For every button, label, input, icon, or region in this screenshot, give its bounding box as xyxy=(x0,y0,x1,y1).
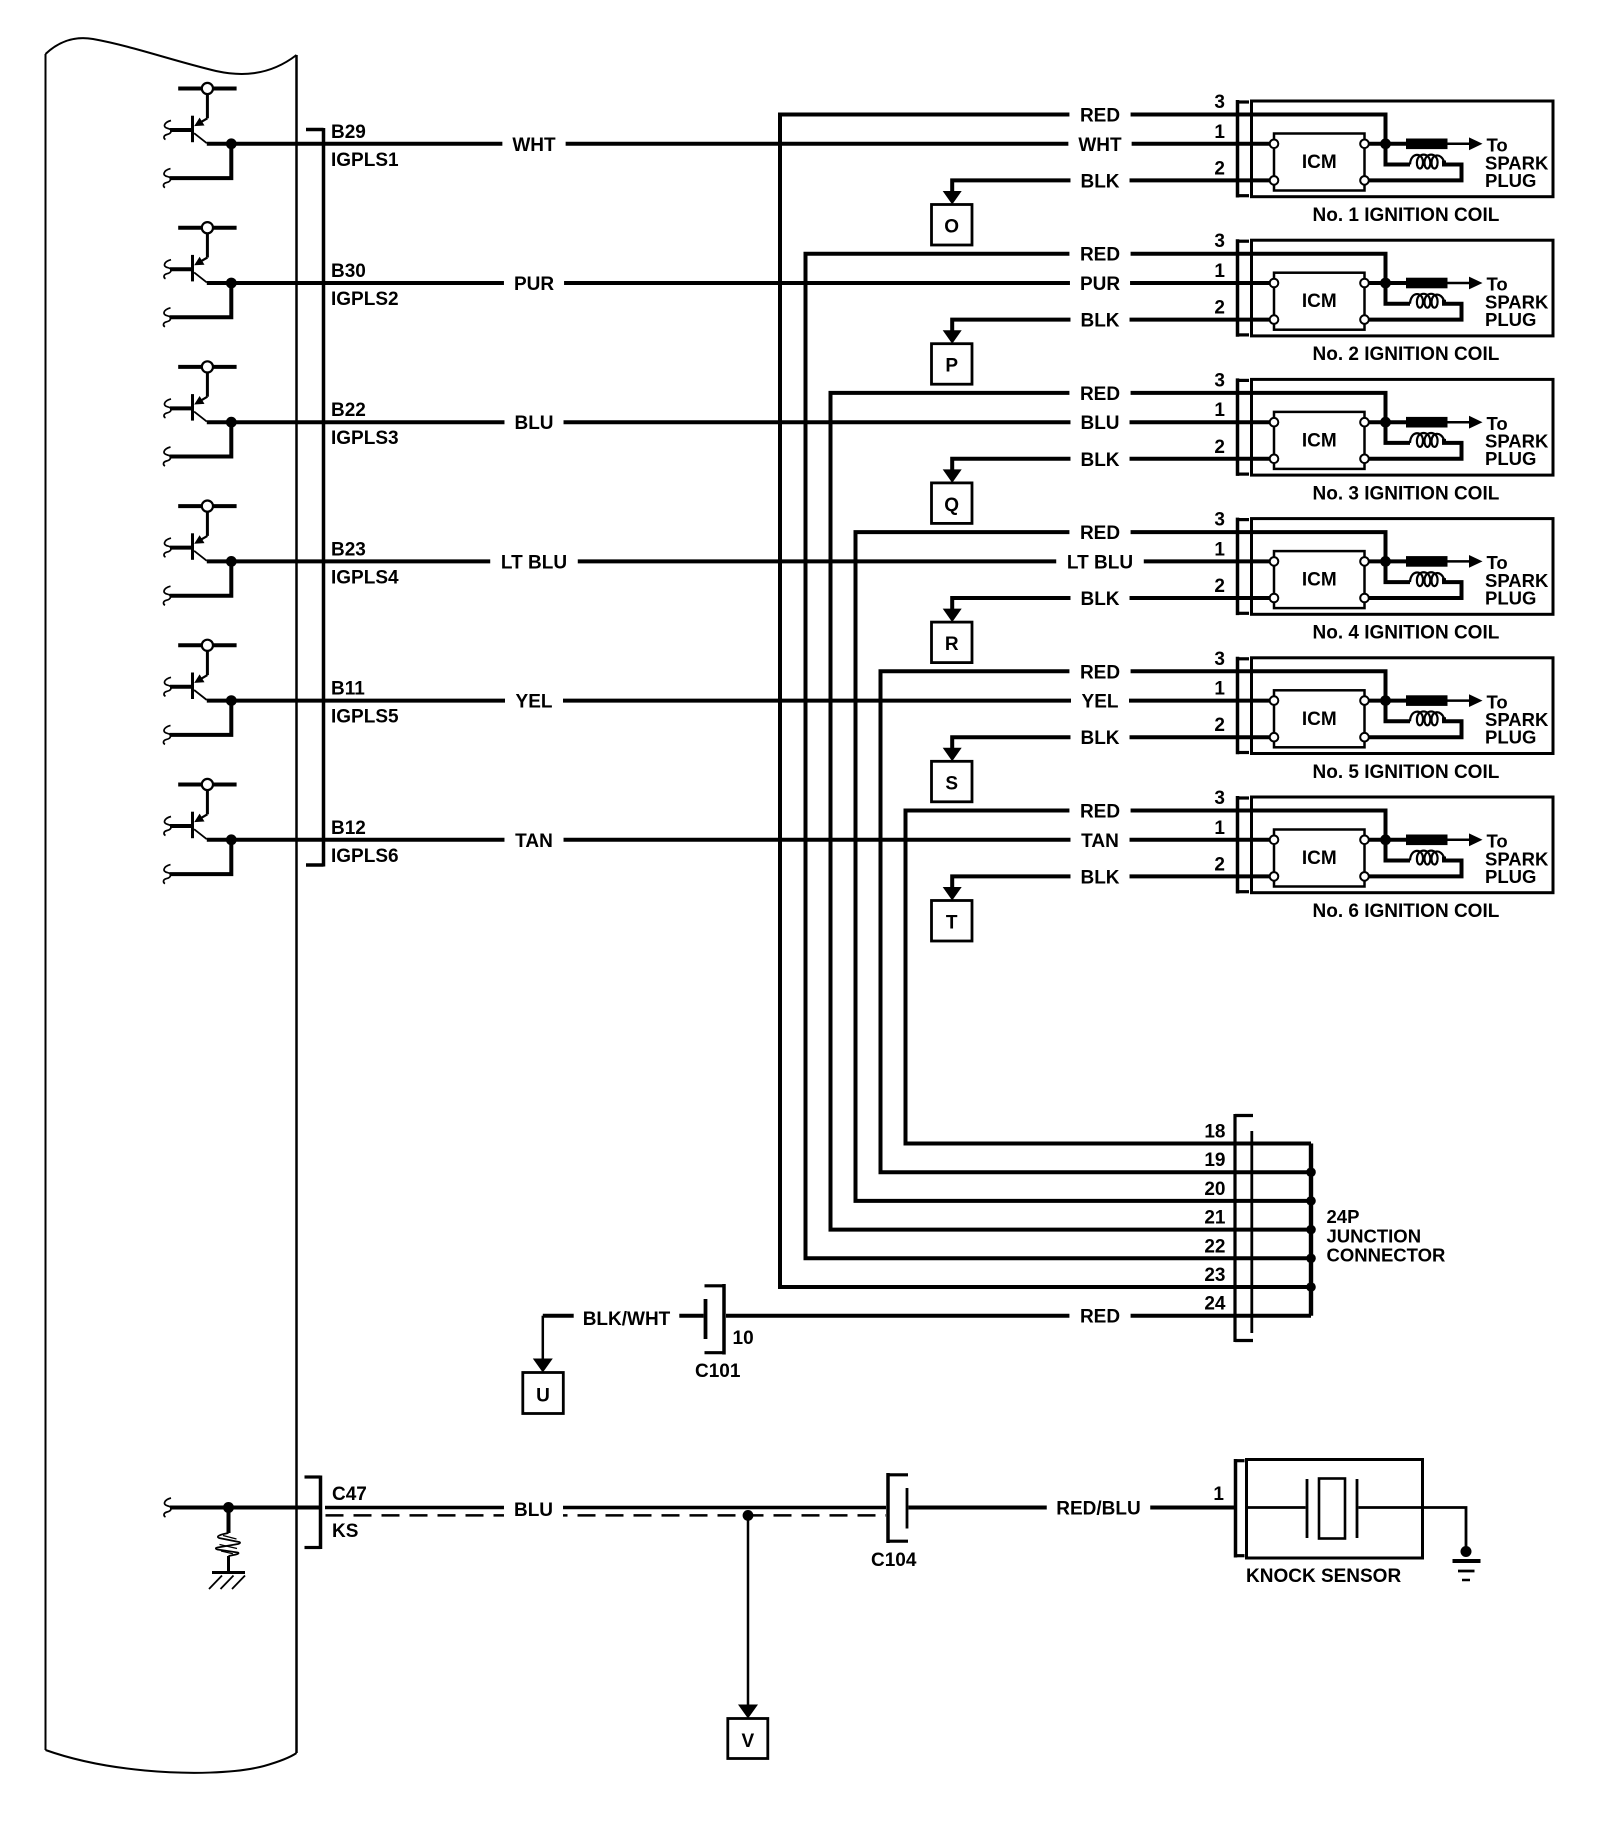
wire BLK/WHT (junction pin 24 ground side) xyxy=(543,1314,704,1318)
pin numbers 3,1,2 of No.3 coil connector xyxy=(1214,370,1225,457)
svg-text:BLK: BLK xyxy=(1080,589,1119,610)
svg-text:No. 1 IGNITION COIL: No. 1 IGNITION COIL xyxy=(1313,205,1500,226)
wire pin 2 lead from ICM (No.1 coil) xyxy=(1238,178,1271,182)
pin numbers 3,1,2 of No.1 coil connector xyxy=(1214,92,1225,179)
svg-text:P: P xyxy=(945,356,958,377)
ECM pin B11 (IGPLS5) xyxy=(331,679,399,728)
ICM pin terminals (No.3 coil) xyxy=(1270,418,1369,463)
node junction dot pin 23 xyxy=(1306,1282,1316,1292)
label PUR (right) on IGPLS2 wire xyxy=(1070,271,1130,295)
wire LT BLU (IGPLS4 signal, ECM to No.4 coil pin 1) xyxy=(207,559,1238,563)
wire RED inside No.1 coil (pin 3 to primary junction) xyxy=(1238,115,1386,144)
svg-text:ICM: ICM xyxy=(1302,152,1337,173)
svg-text:YEL: YEL xyxy=(516,692,553,713)
svg-text:23: 23 xyxy=(1204,1265,1225,1286)
svg-text:V: V xyxy=(741,1731,754,1752)
svg-text:24: 24 xyxy=(1204,1294,1226,1315)
resistor (noise suppressor) to spark plug output (No.1 coil) xyxy=(1386,137,1483,150)
ground connector box R xyxy=(932,622,973,663)
wire shield drain to ground reference V xyxy=(738,1515,758,1718)
wire ICM output to primary junction (No.1 coil) xyxy=(1369,142,1386,146)
svg-text:RED: RED xyxy=(1080,1307,1120,1328)
ECM 31P connector bracket (pins B29-B12) xyxy=(306,128,324,867)
label RED on No.4 coil supply wire xyxy=(1069,520,1130,544)
svg-text:RED: RED xyxy=(1080,106,1120,127)
wire BLK (No.1 coil pin 2 ground, to connector O) xyxy=(943,180,1238,204)
knock sensor KS box xyxy=(1247,1460,1423,1559)
svg-text:RED: RED xyxy=(1080,523,1120,544)
wire ICM output to primary junction (No.4 coil) xyxy=(1369,559,1386,563)
wire ICM output to primary junction (No.5 coil) xyxy=(1369,699,1386,703)
svg-text:ICM: ICM xyxy=(1302,291,1337,312)
svg-text:WHT: WHT xyxy=(512,135,556,156)
svg-text:KNOCK SENSOR: KNOCK SENSOR xyxy=(1246,1566,1401,1587)
node primary junction (No.5 coil) xyxy=(1380,695,1391,706)
svg-text:IGPLS4: IGPLS4 xyxy=(331,567,399,588)
wire pin 2 lead from ICM (No.3 coil) xyxy=(1238,457,1271,461)
label PUR (left) on IGPLS2 wire xyxy=(504,271,564,295)
svg-text:2: 2 xyxy=(1214,437,1225,458)
label BLK on No.5 coil ground wire xyxy=(1070,725,1129,749)
No.5 ignition coil outer box xyxy=(1252,658,1554,754)
wire pin 1 lead into ICM (No.3 coil) xyxy=(1238,420,1271,424)
svg-text:3: 3 xyxy=(1214,510,1225,531)
inductor primary winding (No.2 coil) xyxy=(1386,283,1445,308)
svg-text:20: 20 xyxy=(1204,1179,1225,1200)
svg-text:2: 2 xyxy=(1214,158,1225,179)
chassis ground (KS resistor) xyxy=(209,1556,245,1589)
svg-text:TAN: TAN xyxy=(515,831,553,852)
connector C101 (pin 10) xyxy=(705,1284,725,1355)
svg-text:No. 2 IGNITION COIL: No. 2 IGNITION COIL xyxy=(1313,344,1500,365)
svg-text:18: 18 xyxy=(1204,1122,1225,1143)
node junction on IGPLS3 output xyxy=(226,417,237,428)
svg-text:1: 1 xyxy=(1214,539,1225,560)
ICM pin terminals (No.4 coil) xyxy=(1270,557,1369,602)
svg-text:JUNCTION: JUNCTION xyxy=(1327,1226,1422,1247)
node primary junction (No.2 coil) xyxy=(1380,278,1391,289)
node junction dot pin 19 xyxy=(1306,1167,1316,1177)
node junction dot pin 21 xyxy=(1306,1225,1316,1235)
node primary junction (No.4 coil) xyxy=(1380,556,1391,567)
svg-text:PLUG: PLUG xyxy=(1485,587,1536,608)
resistor (noise suppressor) to spark plug output (No.3 coil) xyxy=(1386,416,1483,429)
svg-text:IGPLS3: IGPLS3 xyxy=(331,428,399,449)
resistor (noise suppressor) to spark plug output (No.4 coil) xyxy=(1386,555,1483,568)
svg-text:Q: Q xyxy=(944,495,959,516)
wire primary winding return to ICM pin (No.3 coil) xyxy=(1369,439,1462,459)
svg-text:10: 10 xyxy=(733,1328,754,1349)
label 24P JUNCTION CONNECTOR xyxy=(1327,1206,1446,1266)
svg-text:T: T xyxy=(946,913,958,934)
svg-text:C104: C104 xyxy=(871,1550,917,1571)
wire RED (No.6 coil pin 3 supply, drop to junction pin 18) xyxy=(906,811,1312,1144)
wire pin 1 lead into ICM (No.5 coil) xyxy=(1238,699,1271,703)
wire RED/BLU (C104 to knock sensor) xyxy=(909,1506,1235,1510)
label WHT (left) on IGPLS1 wire xyxy=(502,132,565,156)
resistor (noise suppressor) to spark plug output (No.5 coil) xyxy=(1386,694,1483,707)
svg-text:No. 4 IGNITION COIL: No. 4 IGNITION COIL xyxy=(1313,623,1500,644)
label RED on No.5 coil supply wire xyxy=(1069,659,1130,683)
wire internal branch below Q4 xyxy=(163,561,231,605)
label YEL (right) on IGPLS5 wire xyxy=(1071,689,1129,713)
wire internal branch below Q1 xyxy=(163,144,231,188)
inductor primary winding (No.6 coil) xyxy=(1386,840,1445,865)
svg-text:3: 3 xyxy=(1214,649,1225,670)
wire pin 2 lead from ICM (No.4 coil) xyxy=(1238,596,1271,600)
No.3 ignition coil outer box xyxy=(1252,379,1554,475)
svg-text:BLK: BLK xyxy=(1080,171,1119,192)
svg-text:IGPLS5: IGPLS5 xyxy=(331,707,399,728)
svg-text:PLUG: PLUG xyxy=(1485,309,1536,330)
label BLU xyxy=(504,1494,563,1527)
wire internal branch below Q5 xyxy=(163,701,231,745)
ECM pin label C47 / KS xyxy=(332,1484,367,1542)
svg-text:RED: RED xyxy=(1080,802,1120,823)
label TAN (left) on IGPLS6 wire xyxy=(504,828,563,852)
label BLK on No.4 coil ground wire xyxy=(1070,586,1129,610)
inductor primary winding (No.4 coil) xyxy=(1386,561,1445,586)
label YEL (left) on IGPLS5 wire xyxy=(505,689,563,713)
ECM pin B30 (IGPLS2) xyxy=(331,261,399,310)
resistor (KS pull-up, hand-drawn) inside ECM xyxy=(216,1508,240,1557)
wire junction bus bar (24P junction connector) xyxy=(1309,1144,1313,1316)
svg-text:1: 1 xyxy=(1214,400,1225,421)
svg-text:LT BLU: LT BLU xyxy=(501,552,567,573)
pin numbers 3,1,2 of No.2 coil connector xyxy=(1214,231,1225,318)
node junction on IGPLS4 output xyxy=(226,556,237,567)
ECM pin C47 (KS) connector bracket xyxy=(305,1476,321,1550)
svg-text:KS: KS xyxy=(332,1521,358,1542)
wire KS inside ECM (knock sensor input) xyxy=(164,1498,321,1517)
ICM (igniter) block inside No.2 coil xyxy=(1274,273,1365,330)
svg-text:B30: B30 xyxy=(331,261,366,282)
wire BLK (No.2 coil pin 2 ground, to connector P) xyxy=(943,320,1238,344)
label WHT (right) on IGPLS1 wire xyxy=(1068,132,1131,156)
node junction on IGPLS5 output xyxy=(226,695,237,706)
node junction on IGPLS1 output xyxy=(226,138,237,149)
svg-text:BLU: BLU xyxy=(514,1500,553,1521)
svg-text:1: 1 xyxy=(1214,679,1225,700)
svg-text:PLUG: PLUG xyxy=(1485,727,1536,748)
wire internal branch below Q6 xyxy=(163,840,231,884)
node primary junction (No.6 coil) xyxy=(1380,834,1391,845)
svg-text:19: 19 xyxy=(1204,1150,1225,1171)
svg-text:B22: B22 xyxy=(331,400,366,421)
wire ICM output to primary junction (No.2 coil) xyxy=(1369,281,1386,285)
ICM (igniter) block inside No.4 coil xyxy=(1274,551,1365,608)
ECM pin B23 (IGPLS4) xyxy=(331,539,399,588)
svg-text:1: 1 xyxy=(1214,818,1225,839)
label BLK on No.2 coil ground wire xyxy=(1070,308,1129,332)
label RED on No.1 coil supply wire xyxy=(1069,103,1130,127)
ICM pin terminals (No.1 coil) xyxy=(1270,140,1369,185)
transistor Q2 (IGPLS2 driver inside ECM) xyxy=(164,222,237,282)
label To SPARK PLUG (No.5 coil) xyxy=(1485,691,1549,747)
No.1 coil 3P connector bracket xyxy=(1238,100,1250,198)
wire ICM output to primary junction (No.6 coil) xyxy=(1369,838,1386,842)
transistor Q1 (IGPLS1 driver inside ECM) xyxy=(164,83,237,143)
wire primary winding return to ICM pin (No.4 coil) xyxy=(1369,578,1462,598)
ground connector box S xyxy=(932,761,973,802)
wire pin 1 lead into ICM (No.1 coil) xyxy=(1238,142,1271,146)
svg-text:3: 3 xyxy=(1214,370,1225,391)
ground connector box O xyxy=(932,205,973,246)
ICM (igniter) block inside No.1 coil xyxy=(1274,134,1365,191)
svg-text:BLK: BLK xyxy=(1080,728,1119,749)
svg-text:PLUG: PLUG xyxy=(1485,866,1536,887)
wire RED (No.5 coil pin 3 supply, drop to junction pin 19) xyxy=(881,671,1312,1172)
svg-text:1: 1 xyxy=(1213,1484,1224,1505)
node junction dot pin 20 xyxy=(1306,1196,1316,1206)
ECM pin B12 (IGPLS6) xyxy=(331,818,399,867)
wire YEL (IGPLS5 signal, ECM to No.5 coil pin 1) xyxy=(207,699,1238,703)
svg-text:U: U xyxy=(536,1386,550,1407)
knock sensor connector bracket xyxy=(1236,1459,1245,1558)
svg-text:2: 2 xyxy=(1214,715,1225,736)
wire primary winding return to ICM pin (No.5 coil) xyxy=(1369,717,1462,737)
label RED on No.3 coil supply wire xyxy=(1069,381,1130,405)
pin numbers 3,1,2 of No.5 coil connector xyxy=(1214,649,1225,736)
svg-text:2: 2 xyxy=(1214,854,1225,875)
inductor primary winding (No.3 coil) xyxy=(1386,422,1445,447)
label BLK on No.1 coil ground wire xyxy=(1070,168,1129,192)
svg-text:WHT: WHT xyxy=(1078,135,1122,156)
ICM (igniter) block inside No.5 coil xyxy=(1274,690,1365,747)
svg-text:22: 22 xyxy=(1204,1236,1225,1257)
svg-text:CONNECTOR: CONNECTOR xyxy=(1327,1245,1446,1266)
svg-text:LT BLU: LT BLU xyxy=(1067,552,1133,573)
wire knock sensor case to ground xyxy=(1423,1508,1467,1549)
ICM (igniter) block inside No.6 coil xyxy=(1274,830,1365,887)
svg-text:IGPLS1: IGPLS1 xyxy=(331,150,399,171)
label BLK/WHT xyxy=(574,1304,680,1331)
wire primary winding return to ICM pin (No.1 coil) xyxy=(1369,161,1462,181)
svg-text:24P: 24P xyxy=(1327,1206,1360,1227)
transistor Q4 (IGPLS4 driver inside ECM) xyxy=(164,501,237,561)
svg-text:ICM: ICM xyxy=(1302,430,1337,451)
svg-text:BLU: BLU xyxy=(514,413,553,434)
svg-text:B12: B12 xyxy=(331,818,366,839)
No.1 ignition coil outer box xyxy=(1252,101,1554,197)
wire RED (No.4 coil pin 3 supply, drop to junction pin 20) xyxy=(856,532,1312,1201)
svg-text:PLUG: PLUG xyxy=(1485,170,1536,191)
resistor (noise suppressor) to spark plug output (No.2 coil) xyxy=(1386,277,1483,290)
transistor Q5 (IGPLS5 driver inside ECM) xyxy=(164,640,237,700)
No.2 ignition coil outer box xyxy=(1252,240,1554,336)
svg-text:RED/BLU: RED/BLU xyxy=(1056,1499,1140,1520)
svg-text:IGPLS6: IGPLS6 xyxy=(331,846,399,867)
ground connector box T xyxy=(932,901,973,942)
wire pin 2 lead from ICM (No.5 coil) xyxy=(1238,735,1271,739)
wire pin 1 lead into ICM (No.4 coil) xyxy=(1238,559,1271,563)
No.3 coil 3P connector bracket xyxy=(1238,378,1250,476)
wire primary winding return to ICM pin (No.2 coil) xyxy=(1369,300,1462,320)
svg-text:PLUG: PLUG xyxy=(1485,448,1536,469)
node primary junction (No.3 coil) xyxy=(1380,417,1391,428)
svg-text:BLK/WHT: BLK/WHT xyxy=(583,1309,671,1330)
ECM pin B22 (IGPLS3) xyxy=(331,400,399,449)
ECM pin B29 (IGPLS1) xyxy=(331,122,399,171)
node junction on IGPLS6 output xyxy=(226,834,237,845)
ICM pin terminals (No.6 coil) xyxy=(1270,836,1369,881)
ICM pin terminals (No.2 coil) xyxy=(1270,279,1369,324)
No.6 ignition coil outer box xyxy=(1252,797,1554,893)
wire RED inside No.5 coil (pin 3 to primary junction) xyxy=(1238,671,1386,700)
svg-text:TAN: TAN xyxy=(1081,831,1119,852)
ECM/PCM boundary (torn-edge outline) xyxy=(46,38,297,1773)
label LT BLU (left) on IGPLS4 wire xyxy=(490,549,578,573)
label BLU (left) on IGPLS3 wire xyxy=(504,410,563,434)
svg-text:IGPLS2: IGPLS2 xyxy=(331,289,399,310)
wire BLU (shielded, C47 to C104) xyxy=(325,1508,886,1516)
svg-text:21: 21 xyxy=(1204,1208,1226,1229)
label To SPARK PLUG (No.2 coil) xyxy=(1485,274,1549,330)
svg-text:ICM: ICM xyxy=(1302,848,1337,869)
label RED on No.6 coil supply wire xyxy=(1069,799,1130,823)
svg-text:ICM: ICM xyxy=(1302,570,1337,591)
No.2 coil 3P connector bracket xyxy=(1238,239,1250,337)
wire BLK (No.5 coil pin 2 ground, to connector S) xyxy=(943,737,1238,761)
wire BLK (No.3 coil pin 2 ground, to connector Q) xyxy=(943,459,1238,483)
svg-text:B29: B29 xyxy=(331,122,366,143)
label BLK on No.6 coil ground wire xyxy=(1070,864,1129,888)
svg-text:BLK: BLK xyxy=(1080,867,1119,888)
wire RED inside No.3 coil (pin 3 to primary junction) xyxy=(1238,393,1386,422)
wire RED inside No.6 coil (pin 3 to primary junction) xyxy=(1238,811,1386,840)
ground reference box U xyxy=(523,1373,564,1414)
label To SPARK PLUG (No.1 coil) xyxy=(1485,135,1549,191)
transistor Q6 (IGPLS6 driver inside ECM) xyxy=(164,779,237,839)
wire BLU (IGPLS3 signal, ECM to No.3 coil pin 1) xyxy=(207,420,1238,424)
wire WHT (IGPLS1 signal, ECM to No.1 coil pin 1) xyxy=(207,142,1238,146)
piezo element (knock sensor) xyxy=(1248,1479,1423,1539)
wire pin 1 lead into ICM (No.2 coil) xyxy=(1238,281,1271,285)
node junction on IGPLS2 output xyxy=(226,278,237,289)
svg-text:S: S xyxy=(945,773,958,794)
wire internal branch below Q3 xyxy=(163,422,231,466)
24P junction connector bracket xyxy=(1235,1114,1253,1342)
inductor primary winding (No.5 coil) xyxy=(1386,701,1445,726)
label RED on pin 24 wire xyxy=(1069,1304,1130,1328)
svg-text:B23: B23 xyxy=(331,539,366,560)
wire to ground reference U xyxy=(533,1316,553,1373)
connector C104 xyxy=(888,1473,908,1543)
wire pin 2 lead from ICM (No.6 coil) xyxy=(1238,874,1271,878)
wire PUR (IGPLS2 signal, ECM to No.2 coil pin 1) xyxy=(207,281,1238,285)
No.4 ignition coil outer box xyxy=(1252,519,1554,615)
wire RED inside No.2 coil (pin 3 to primary junction) xyxy=(1238,254,1386,283)
svg-text:RED: RED xyxy=(1080,662,1120,683)
node junction dot pin 22 xyxy=(1306,1254,1316,1264)
svg-text:BLK: BLK xyxy=(1080,450,1119,471)
svg-text:C47: C47 xyxy=(332,1484,367,1505)
svg-text:RED: RED xyxy=(1080,384,1120,405)
wire pin 2 lead from ICM (No.2 coil) xyxy=(1238,318,1271,322)
svg-text:No. 5 IGNITION COIL: No. 5 IGNITION COIL xyxy=(1313,762,1500,783)
label To SPARK PLUG (No.6 coil) xyxy=(1485,831,1549,887)
wire TAN (IGPLS6 signal, ECM to No.6 coil pin 1) xyxy=(207,838,1238,842)
inductor primary winding (No.1 coil) xyxy=(1386,144,1445,169)
ground connector box Q xyxy=(932,483,973,524)
wire internal branch below Q2 xyxy=(163,283,231,327)
wire BLK (No.6 coil pin 2 ground, to connector T) xyxy=(943,876,1238,900)
No.6 coil 3P connector bracket xyxy=(1238,796,1250,894)
label RED/BLU xyxy=(1047,1496,1150,1520)
svg-text:B11: B11 xyxy=(331,679,365,700)
svg-text:2: 2 xyxy=(1214,576,1225,597)
svg-text:1: 1 xyxy=(1214,261,1225,282)
pin numbers 3,1,2 of No.6 coil connector xyxy=(1214,788,1225,875)
transistor Q3 (IGPLS3 driver inside ECM) xyxy=(164,361,237,421)
wire BLK (No.4 coil pin 2 ground, to connector R) xyxy=(943,598,1238,622)
node junction on KS wire xyxy=(223,1502,234,1513)
label RED on No.2 coil supply wire xyxy=(1069,242,1130,266)
svg-text:RED: RED xyxy=(1080,245,1120,266)
wire pin 1 lead into ICM (No.6 coil) xyxy=(1238,838,1271,842)
24P junction connector terminal bar xyxy=(1250,1131,1253,1333)
svg-text:O: O xyxy=(944,217,959,238)
svg-text:No. 6 IGNITION COIL: No. 6 IGNITION COIL xyxy=(1313,901,1500,922)
wire RED (No.1 coil pin 3 supply, drop to junction pin 23) xyxy=(780,115,1311,1288)
label To SPARK PLUG (No.3 coil) xyxy=(1485,413,1549,469)
svg-text:BLU: BLU xyxy=(1080,413,1119,434)
resistor (noise suppressor) to spark plug output (No.6 coil) xyxy=(1386,833,1483,846)
svg-text:YEL: YEL xyxy=(1082,692,1119,713)
No.4 coil 3P connector bracket xyxy=(1238,518,1250,616)
svg-text:PUR: PUR xyxy=(514,274,554,295)
label To SPARK PLUG (No.4 coil) xyxy=(1485,552,1549,608)
No.5 coil 3P connector bracket xyxy=(1238,657,1250,755)
svg-text:3: 3 xyxy=(1214,92,1225,113)
wire RED inside No.4 coil (pin 3 to primary junction) xyxy=(1238,532,1386,561)
svg-text:2: 2 xyxy=(1214,298,1225,319)
wire ICM output to primary junction (No.3 coil) xyxy=(1369,420,1386,424)
svg-text:R: R xyxy=(945,634,959,655)
svg-text:No. 3 IGNITION COIL: No. 3 IGNITION COIL xyxy=(1313,483,1500,504)
svg-text:1: 1 xyxy=(1214,122,1225,143)
svg-text:3: 3 xyxy=(1214,788,1225,809)
svg-text:ICM: ICM xyxy=(1302,709,1337,730)
ground connector box P xyxy=(932,344,973,385)
ICM pin terminals (No.5 coil) xyxy=(1270,696,1369,741)
wire RED (No.3 coil pin 3 supply, drop to junction pin 21) xyxy=(831,393,1312,1230)
label BLK on No.3 coil ground wire xyxy=(1070,447,1129,471)
label BLU (right) on IGPLS3 wire xyxy=(1070,410,1129,434)
svg-text:PUR: PUR xyxy=(1080,274,1120,295)
pin numbers 3,1,2 of No.4 coil connector xyxy=(1214,510,1225,597)
wire primary winding return to ICM pin (No.6 coil) xyxy=(1369,857,1462,877)
earth ground (knock sensor) xyxy=(1453,1546,1481,1580)
wire RED (C101 to junction pin 24) xyxy=(726,1314,1311,1318)
ground reference box V xyxy=(728,1719,768,1759)
node junction on shield (to V) xyxy=(743,1510,754,1521)
svg-text:3: 3 xyxy=(1214,231,1225,252)
label LT BLU (right) on IGPLS4 wire xyxy=(1056,549,1144,573)
svg-text:C101: C101 xyxy=(695,1361,741,1382)
svg-text:BLK: BLK xyxy=(1080,311,1119,332)
wire RED (No.2 coil pin 3 supply, drop to junction pin 22) xyxy=(806,254,1312,1259)
ICM (igniter) block inside No.3 coil xyxy=(1274,412,1365,469)
label TAN (right) on IGPLS6 wire xyxy=(1070,828,1129,852)
node primary junction (No.1 coil) xyxy=(1380,138,1391,149)
